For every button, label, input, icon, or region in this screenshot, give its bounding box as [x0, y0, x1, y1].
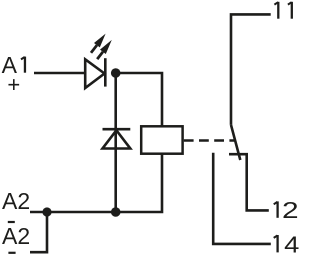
wire contact to terminal 12: [247, 154, 269, 210]
contact arm: [231, 125, 240, 160]
junction node top: [111, 68, 121, 78]
flyback diode D2 cathode bar: [103, 128, 131, 131]
junction node bottom: [111, 207, 121, 217]
svg-text:A2: A2: [2, 223, 30, 249]
wire A2-bar up to A2 node: [30, 212, 47, 252]
terminal label 12 digit 2: [282, 197, 299, 223]
svg-text:A2: A2: [2, 188, 30, 214]
junction node A2: [42, 207, 51, 216]
wire junction down through diode: [114, 73, 117, 212]
terminal label 11 first digit: [274, 2, 278, 19]
LED light arrow 1: [91, 34, 106, 53]
wire terminal 11 to contact common: [231, 14, 271, 125]
terminal label 14 digit 4: [284, 232, 299, 257]
wire A2 rail: [30, 211, 116, 214]
terminal label A1 letter A: [2, 52, 18, 78]
contact 12 tick: [229, 153, 248, 156]
wire coil bottom to A2 rail: [116, 154, 162, 212]
terminal label 14 digit 1: [274, 235, 278, 252]
flyback diode D2 triangle: [103, 130, 131, 148]
relay coil K1: [141, 126, 182, 153]
terminal label 11 second digit: [288, 2, 292, 19]
polarity plus sign: [7, 72, 20, 97]
LED light arrow 2: [97, 40, 112, 59]
terminal label 12 digit 1: [274, 201, 278, 217]
terminal label A1 digit 1: [21, 57, 25, 73]
wire A1 to LED anode: [34, 72, 85, 75]
wire junction to coil top: [116, 73, 162, 126]
wire contact to terminal 14: [213, 153, 271, 244]
terminal label A2-bar: [2, 223, 30, 249]
terminal label A2: [2, 188, 30, 214]
svg-text:+: +: [7, 72, 20, 97]
polarity minus sign: [8, 252, 15, 254]
svg-text:2: 2: [282, 197, 299, 223]
LED D1 triangle: [85, 59, 104, 88]
svg-text:4: 4: [284, 232, 299, 257]
mechanical link dashed: [184, 139, 235, 142]
overbar of A2-bar: [8, 221, 15, 223]
LED D1 cathode bar: [104, 58, 107, 86]
